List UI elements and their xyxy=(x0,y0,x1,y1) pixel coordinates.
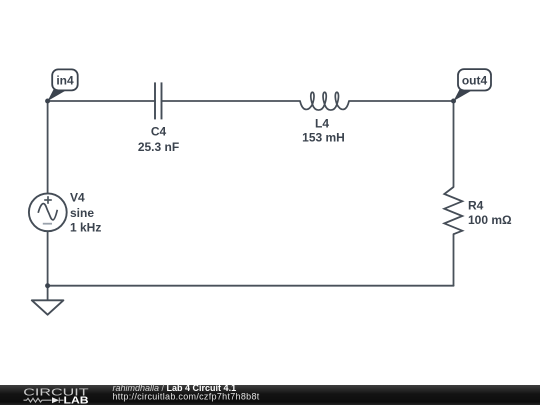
node flag in4 pointer xyxy=(48,90,66,102)
V4 minus sign xyxy=(43,223,52,225)
svg-text:http://circuitlab.com/czfp7ht7: http://circuitlab.com/czfp7ht7h8b8t xyxy=(113,392,260,402)
wire: C4 right plate to L4 xyxy=(162,100,301,102)
capacitor C4 value labels xyxy=(138,125,179,155)
svg-text:V4: V4 xyxy=(70,191,85,205)
svg-text:L4: L4 xyxy=(315,117,329,131)
node dot out4 xyxy=(451,99,456,104)
svg-text:100 mΩ: 100 mΩ xyxy=(468,213,512,227)
wire left rail lower: V4 bottom to ground node xyxy=(47,231,49,286)
V4 labels xyxy=(70,191,101,235)
svg-text:sine: sine xyxy=(70,206,94,220)
wire right rail lower: corner to R4 bottom xyxy=(453,234,455,286)
svg-text:LAB: LAB xyxy=(64,395,90,405)
node dot in4 xyxy=(45,99,50,104)
node flag in4 box xyxy=(52,69,77,90)
voltage source V4 xyxy=(29,193,67,231)
wire left rail upper: in4 node to V4 top xyxy=(47,101,49,193)
svg-text:1 kHz: 1 kHz xyxy=(70,221,101,235)
wire ground stub xyxy=(47,286,49,301)
svg-text:out4: out4 xyxy=(462,74,488,88)
wire right rail upper: R4 top to out4 node xyxy=(453,101,455,187)
inductor L4 xyxy=(300,92,349,110)
logo diode cathode bar and wire xyxy=(59,398,63,403)
node flag out4 box xyxy=(458,69,491,90)
wire top-left: in4 node to C4 left plate xyxy=(48,100,155,102)
inductor L4 labels xyxy=(302,117,345,145)
capacitor C4 xyxy=(155,82,162,119)
svg-text:153 mH: 153 mH xyxy=(302,131,345,145)
svg-text:C4: C4 xyxy=(151,125,167,139)
resistor R4 xyxy=(444,187,462,234)
wire: L4 to out4 node xyxy=(349,100,454,102)
node flag out4 pointer xyxy=(454,90,473,102)
ground xyxy=(32,300,64,314)
svg-text:in4: in4 xyxy=(56,74,74,88)
V4 plus sign xyxy=(44,196,52,204)
logo diode triangle xyxy=(52,397,59,403)
node dot ground junction xyxy=(45,283,50,288)
svg-text:25.3 nF: 25.3 nF xyxy=(138,140,179,154)
svg-text:R4: R4 xyxy=(468,199,484,213)
V4 sine wave xyxy=(38,204,57,220)
resistor R4 labels xyxy=(468,199,512,228)
logo resistor squiggle xyxy=(24,398,52,402)
wire bottom: ground node to bottom-right corner xyxy=(48,285,454,287)
